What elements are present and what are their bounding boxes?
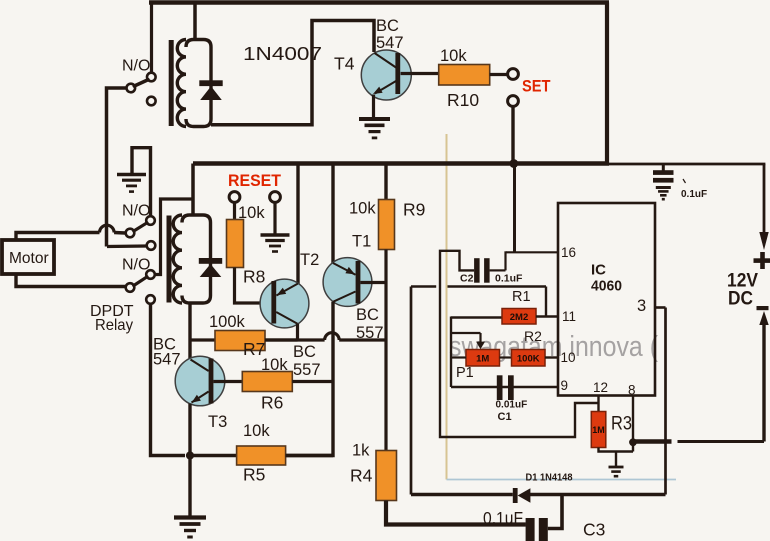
wire T1 collector down to R5 bbox=[286, 302, 333, 456]
svg-text:2M2: 2M2 bbox=[510, 312, 528, 323]
svg-text:10k: 10k bbox=[243, 422, 270, 440]
wire rail to T1 emitter bbox=[331, 164, 334, 264]
wire R5 to T1 collector line bbox=[286, 454, 333, 457]
transistor T3 emitter diagonal bbox=[192, 392, 209, 403]
node junction pin8 R3 negative bbox=[629, 438, 637, 446]
svg-text:T4: T4 bbox=[334, 54, 355, 74]
wire P1 to R2 bbox=[500, 356, 512, 358]
transistor T1 bar bbox=[356, 261, 361, 304]
node relay1 switch NO contact bbox=[147, 73, 156, 82]
wire P1 left end bbox=[451, 356, 466, 358]
svg-text:R4: R4 bbox=[350, 466, 373, 486]
resistor R1 2M2 bbox=[502, 309, 536, 325]
svg-text:100k: 100k bbox=[209, 313, 246, 331]
transistor T2 emitter diagonal bbox=[276, 284, 298, 296]
svg-text:0.1uF: 0.1uF bbox=[483, 508, 523, 528]
wire R1 right to pin 11 bbox=[536, 315, 558, 317]
wire relay1 common to middle NC contact bbox=[107, 244, 147, 248]
wire mid supply rail bbox=[193, 161, 609, 165]
wire rail to decoupling cap bbox=[662, 165, 665, 171]
svg-text:R10: R10 bbox=[447, 90, 479, 110]
wire R2 to pin 10 bbox=[545, 356, 558, 358]
wire relay2 coil bottom to T3 collector bbox=[188, 303, 191, 359]
wire lower NC contact down to R5 node bbox=[151, 304, 186, 456]
wire junction to ground bbox=[188, 456, 191, 518]
wire relay1 switch arm bbox=[134, 80, 148, 86]
terminal SET lower bbox=[508, 96, 519, 107]
wire motor bottom to lower switch common bbox=[16, 274, 125, 287]
wire T3 collector to R7 bbox=[190, 338, 215, 341]
wire relay1 coil bottom to T4 collector bbox=[211, 21, 374, 125]
wire T2 collector down and across bbox=[296, 324, 299, 340]
ground below T3 bbox=[174, 515, 206, 519]
node lower switch NC contact bbox=[146, 295, 155, 304]
wire pin11 node up to feedback line bbox=[545, 287, 547, 317]
svg-text:557: 557 bbox=[293, 361, 321, 379]
node relay1 switch NC contact bbox=[147, 97, 156, 106]
transistor T1 emitter diagonal bbox=[333, 263, 356, 275]
wire D1 cathode side bbox=[411, 493, 513, 497]
wire feedback vertical to D1 bbox=[410, 287, 413, 495]
transistor T3 collector diagonal bbox=[191, 360, 209, 372]
capacitor C2 bbox=[474, 258, 480, 283]
svg-text:R3: R3 bbox=[611, 413, 632, 435]
ground for middle switch loop bbox=[117, 173, 146, 177]
transistor T4 collector diagonal bbox=[375, 53, 397, 68]
wire top rail to relay1 switch bbox=[150, 3, 153, 73]
resistor R7 bbox=[215, 331, 265, 351]
svg-text:IC: IC bbox=[591, 262, 606, 279]
wire T2 collector to T1 base node bbox=[265, 338, 325, 341]
node junction SET on mid rail bbox=[509, 159, 518, 168]
svg-text:11: 11 bbox=[562, 309, 576, 324]
wire rail to T2 emitter bbox=[296, 164, 299, 284]
wire lower NO contact to rail branch bbox=[155, 199, 193, 275]
svg-text:C3: C3 bbox=[583, 520, 605, 540]
wire feedback horizontal left part bbox=[411, 285, 436, 287]
svg-text:100K: 100K bbox=[517, 353, 540, 364]
transistor T3 emitter arrow bbox=[192, 395, 201, 403]
wire feedback horizontal right part bbox=[448, 285, 547, 287]
node lower switch common bbox=[126, 283, 135, 292]
wire pin 3 down to D1 bbox=[664, 308, 667, 495]
IC U1 4060 body bbox=[558, 203, 655, 396]
svg-text:RESET: RESET bbox=[228, 171, 282, 190]
svg-text:R2: R2 bbox=[524, 328, 542, 344]
wire R4 to C3 bbox=[386, 501, 526, 525]
svg-text:T1: T1 bbox=[352, 233, 371, 251]
resistor R8 bbox=[227, 220, 244, 268]
arrow 12V positive bbox=[759, 232, 768, 250]
svg-text:547: 547 bbox=[376, 34, 404, 52]
node junction T3 emitter R5 bbox=[186, 451, 194, 459]
transistor T3 body bbox=[175, 356, 225, 406]
svg-text:DC: DC bbox=[728, 289, 753, 310]
wire rail down to relay2 coil bbox=[191, 164, 195, 217]
svg-text:10k: 10k bbox=[261, 356, 288, 374]
capacitor C3 bbox=[526, 518, 535, 541]
svg-text:T2: T2 bbox=[300, 251, 319, 269]
wire middle NO contact to ground loop bbox=[132, 148, 151, 216]
svg-text:BC: BC bbox=[356, 306, 379, 324]
terminal RESET left bbox=[229, 192, 240, 203]
relay RL2 coil with core bar bbox=[167, 216, 172, 303]
svg-text:R9: R9 bbox=[403, 200, 425, 220]
svg-text:9: 9 bbox=[561, 378, 569, 393]
component Motor box bbox=[2, 240, 54, 274]
transistor T2 bar bbox=[271, 281, 276, 324]
wire top-right vertical drop bbox=[605, 3, 609, 166]
wire C2 left to loop bbox=[440, 251, 599, 437]
svg-text:0.1uF: 0.1uF bbox=[681, 189, 707, 200]
transistor T2 collector diagonal bbox=[276, 312, 297, 324]
arrow 12V negative bbox=[759, 311, 768, 325]
wire pin 12 to R3 bbox=[597, 396, 599, 412]
transistor T4 bar bbox=[395, 53, 400, 94]
ground below R3 bbox=[609, 466, 624, 469]
watermark bottom border (blue line) bbox=[447, 479, 677, 481]
wire negative line thick part bbox=[633, 439, 672, 444]
svg-text:1k: 1k bbox=[352, 442, 370, 460]
resistor R2 100K bbox=[512, 350, 546, 367]
wire R10 to SET terminal bbox=[490, 73, 507, 76]
node relay1 switch common bbox=[127, 84, 136, 93]
wire R6 to T1 collector line bbox=[292, 380, 333, 383]
diode D1 1N4148 bbox=[513, 488, 518, 503]
wire pin 8 down bbox=[632, 396, 634, 452]
transistor T1 body bbox=[323, 258, 372, 307]
wire junction to R5 bbox=[190, 454, 237, 457]
wire top rail to relay1 coil bbox=[193, 3, 197, 41]
wire pin 3 stub bbox=[655, 306, 666, 309]
svg-text:16: 16 bbox=[561, 245, 576, 260]
wire top supply rail bbox=[149, 0, 609, 5]
resistor R9 bbox=[379, 200, 395, 250]
svg-text:1M: 1M bbox=[592, 425, 605, 435]
wire rail to R9 bbox=[384, 164, 387, 200]
arrow P1 wiper bbox=[476, 342, 485, 350]
wire R7 to T2 collector node bbox=[265, 338, 298, 341]
wire relay1 common left and down bbox=[107, 88, 127, 247]
wire 12V negative down bbox=[762, 324, 765, 442]
transistor T4 body bbox=[361, 50, 411, 100]
node middle switch common bbox=[126, 229, 135, 238]
label + terminal bbox=[754, 258, 770, 263]
wire R1 left to P1 node bbox=[451, 316, 502, 318]
resistor R3 1M bbox=[591, 412, 606, 448]
ground under decoupling cap bbox=[656, 186, 671, 189]
svg-text:BC: BC bbox=[293, 343, 316, 361]
wire C3 right plate to D1 line bbox=[548, 495, 562, 529]
wire SET junction down to pin 16 bbox=[513, 165, 516, 252]
wire rail to 12V positive bbox=[763, 164, 766, 234]
wire pin 16 stub bbox=[506, 251, 558, 253]
wire T4 emitter to ground bbox=[372, 95, 375, 118]
svg-text:C2: C2 bbox=[460, 273, 474, 285]
transistor T4 emitter diagonal bbox=[375, 81, 396, 94]
wire T1 base to R9 line bbox=[361, 281, 387, 284]
label - terminal bbox=[757, 306, 769, 310]
svg-text:D1 1N4148: D1 1N4148 bbox=[526, 472, 573, 484]
svg-text:R6: R6 bbox=[261, 393, 283, 413]
node lower switch NO contact bbox=[146, 270, 155, 279]
wire R9 to R4 vertical bbox=[384, 250, 387, 451]
svg-text:12: 12 bbox=[593, 380, 608, 395]
wire P1 node vertical bbox=[450, 317, 452, 388]
resistor R5 bbox=[237, 446, 286, 465]
wire C2 right plate to pin16 line bbox=[490, 269, 506, 271]
svg-text:0.1uF: 0.1uF bbox=[495, 273, 523, 285]
wire lower switch arm bbox=[134, 277, 147, 286]
svg-text:R8: R8 bbox=[243, 267, 265, 287]
wire SET to mid rail bbox=[511, 107, 514, 164]
transistor T3 bar bbox=[209, 359, 214, 404]
relay RL1 coil with core bar bbox=[169, 40, 174, 126]
svg-text:1M: 1M bbox=[476, 353, 489, 364]
transistor T1 collector diagonal bbox=[333, 292, 356, 302]
svg-text:P1: P1 bbox=[456, 365, 474, 381]
node middle switch NC contact bbox=[147, 241, 156, 250]
svg-text:4060: 4060 bbox=[591, 278, 622, 295]
wire P1 wiper bbox=[451, 332, 481, 334]
transistor T2 emitter arrow bbox=[277, 288, 287, 296]
svg-text:R5: R5 bbox=[243, 465, 265, 485]
svg-text:Relay: Relay bbox=[95, 317, 133, 334]
svg-text:8: 8 bbox=[628, 383, 636, 398]
svg-text:T3: T3 bbox=[208, 413, 227, 431]
resistor R4 bbox=[376, 451, 397, 501]
resistor R10 bbox=[439, 65, 490, 86]
transistor T1 emitter arrow bbox=[345, 267, 355, 275]
ground for RESET bbox=[261, 233, 290, 237]
capacitor 0.1uF decoupling bbox=[653, 170, 674, 175]
wire motor top to middle switch common bbox=[16, 233, 100, 241]
svg-text:3: 3 bbox=[637, 297, 646, 315]
capacitor C1 bbox=[497, 375, 503, 400]
wire ground stem R3 bbox=[615, 452, 617, 467]
wire T3 base to R6 bbox=[213, 380, 242, 383]
watermark left border (tan line) bbox=[446, 134, 448, 480]
svg-text:10k: 10k bbox=[440, 47, 467, 65]
transistor T4 emitter arrow bbox=[373, 87, 383, 94]
wire RESET to R8 bbox=[233, 203, 236, 220]
terminal RESET right bbox=[270, 192, 281, 203]
potentiometer P1 1M bbox=[466, 350, 500, 367]
wire RESET right to ground bbox=[273, 203, 276, 235]
svg-text:10k: 10k bbox=[349, 200, 376, 218]
wire T3 emitter to junction bbox=[188, 404, 191, 456]
wire middle switch arm bbox=[134, 223, 147, 231]
terminal SET upper bbox=[508, 69, 519, 80]
svg-text:557: 557 bbox=[356, 324, 384, 342]
wire pin 9 line bbox=[451, 386, 558, 388]
ground under T4 bbox=[359, 117, 390, 121]
svg-text:BC: BC bbox=[376, 17, 399, 35]
svg-text:10: 10 bbox=[561, 350, 576, 365]
svg-text:SET: SET bbox=[522, 77, 551, 96]
transistor T2 body bbox=[260, 279, 309, 328]
svg-text:C1: C1 bbox=[498, 411, 512, 423]
svg-text:547: 547 bbox=[153, 351, 181, 369]
wire R3 bottom bbox=[599, 448, 634, 452]
wire T4 base to R10 bbox=[401, 72, 439, 75]
svg-text:Motor: Motor bbox=[9, 250, 49, 267]
svg-text:N/O: N/O bbox=[122, 58, 150, 75]
wire R8 to T2 base bbox=[235, 268, 261, 304]
wire D1 anode side bbox=[530, 493, 666, 497]
resistor R6 bbox=[242, 372, 292, 392]
node middle switch NO contact bbox=[146, 216, 155, 225]
svg-text:1N4007: 1N4007 bbox=[243, 44, 322, 64]
wire negative line to R3 junction bbox=[678, 440, 765, 443]
svg-text:0.01uF: 0.01uF bbox=[496, 400, 528, 411]
svg-text:R1: R1 bbox=[512, 289, 531, 305]
